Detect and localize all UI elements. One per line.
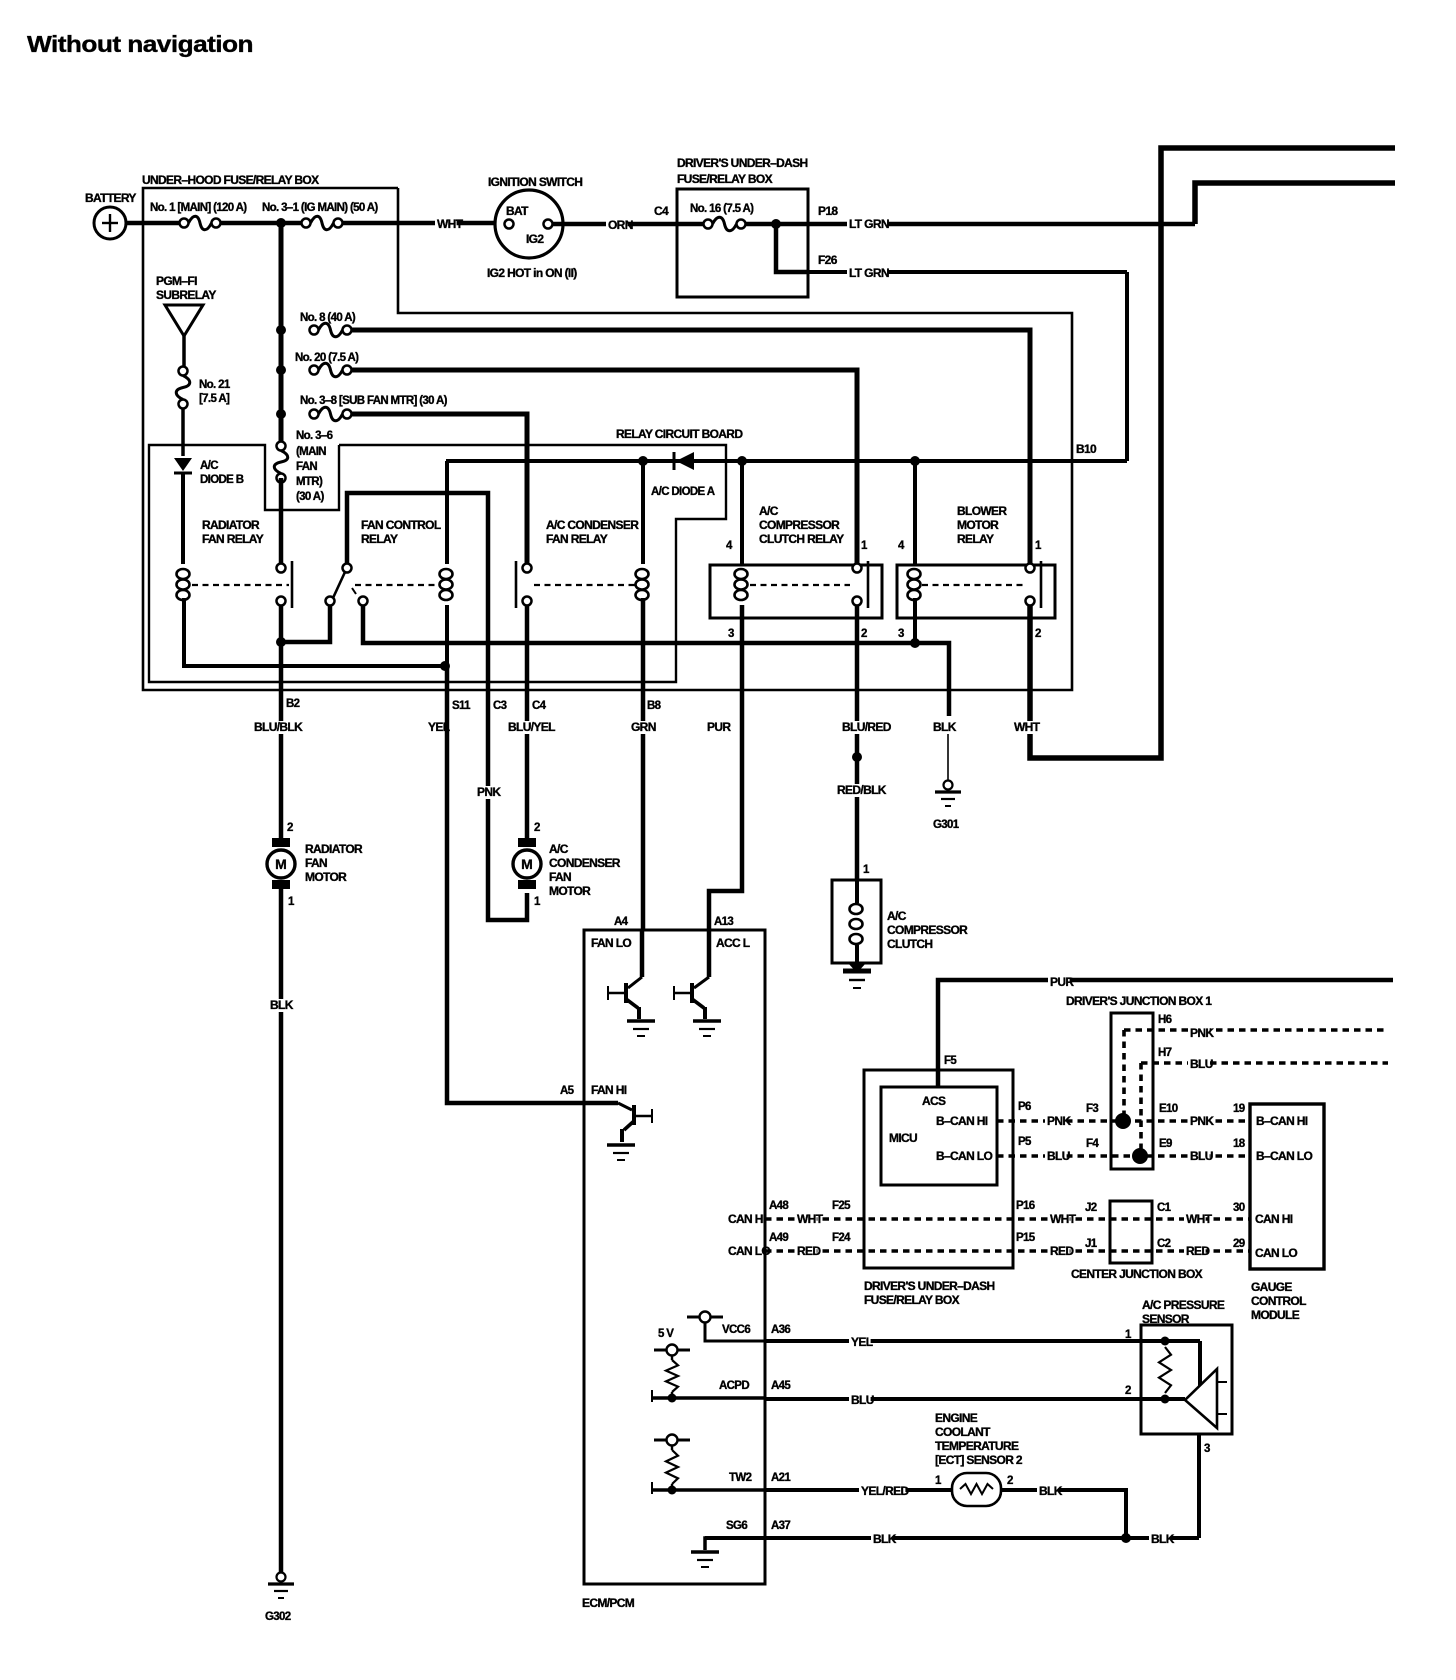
svg-text:BLK: BLK: [873, 1532, 897, 1546]
svg-text:GRN: GRN: [631, 720, 656, 734]
svg-text:G302: G302: [265, 1611, 291, 1623]
terminal WHT label: [1012, 721, 1034, 734]
fan control relay armature: [333, 572, 345, 598]
svg-text:BLU/BLK: BLU/BLK: [254, 720, 303, 734]
wire compressor relay pin2 to clutch: [855, 605, 860, 880]
svg-text:RELAY: RELAY: [957, 532, 994, 546]
svg-text:B–CAN LO: B–CAN LO: [1256, 1149, 1312, 1163]
svg-text:RELAY: RELAY: [361, 532, 398, 546]
svg-text:MODULE: MODULE: [1251, 1308, 1300, 1322]
svg-text:DRIVER'S UNDER–DASH: DRIVER'S UNDER–DASH: [864, 1279, 995, 1293]
svg-text:FUSE/RELAY BOX: FUSE/RELAY BOX: [864, 1293, 960, 1307]
junction pressure sensor pin1: [1161, 1337, 1170, 1346]
svg-text:C1: C1: [1157, 1202, 1172, 1214]
svg-text:C2: C2: [1157, 1238, 1171, 1250]
svg-text:E9: E9: [1159, 1138, 1172, 1150]
svg-text:A45: A45: [771, 1380, 791, 1392]
svg-text:RADIATOR: RADIATOR: [305, 842, 363, 856]
svg-text:A5: A5: [560, 1085, 575, 1097]
svg-text:J1: J1: [1085, 1238, 1098, 1250]
svg-text:A36: A36: [771, 1324, 790, 1336]
junction B2 / fan control relay throw: [276, 637, 286, 647]
svg-text:PUR: PUR: [707, 720, 731, 734]
junction pressure sensor pin2: [1161, 1395, 1170, 1404]
svg-text:DRIVER'S UNDER–DASH: DRIVER'S UNDER–DASH: [677, 156, 808, 170]
svg-text:MOTOR: MOTOR: [549, 884, 591, 898]
svg-text:BLU: BLU: [851, 1393, 874, 1407]
svg-text:A49: A49: [769, 1232, 788, 1244]
svg-text:F4: F4: [1086, 1138, 1099, 1150]
svg-text:ACPD: ACPD: [719, 1380, 749, 1392]
svg-text:A/C PRESSURE: A/C PRESSURE: [1142, 1298, 1225, 1312]
svg-text:A/C: A/C: [549, 842, 569, 856]
svg-text:FAN: FAN: [549, 870, 571, 884]
wire F26 branch down: [776, 224, 808, 272]
junction No.3-8 branch: [276, 409, 286, 419]
svg-text:WHT: WHT: [437, 217, 464, 231]
wire WHT fuse No.3-1 to ignition switch: [343, 221, 505, 226]
wire fuse No.1 to junction: [221, 221, 302, 226]
svg-text:2: 2: [534, 822, 540, 834]
svg-text:F26: F26: [818, 253, 838, 267]
svg-text:YEL: YEL: [851, 1335, 873, 1349]
svg-text:SG6: SG6: [726, 1520, 747, 1532]
wire B-CAN LO BLU dashed P5-F4-E9-18: [997, 1154, 1250, 1158]
svg-text:CLUTCH RELAY: CLUTCH RELAY: [759, 532, 844, 546]
svg-text:30: 30: [1233, 1202, 1245, 1214]
svg-text:ENGINE: ENGINE: [935, 1411, 978, 1425]
svg-text:FAN HI: FAN HI: [591, 1083, 627, 1097]
wire relay coil bus from F26: [446, 459, 1127, 463]
wire B-CAN HI PNK dashed P6-F3-E10-19: [997, 1119, 1250, 1123]
svg-text:No. 16 (7.5 A): No. 16 (7.5 A): [690, 203, 754, 215]
svg-text:DRIVER'S JUNCTION BOX 1: DRIVER'S JUNCTION BOX 1: [1066, 994, 1212, 1008]
svg-text:ACC L: ACC L: [716, 936, 750, 950]
wire blower relay pin3 to ground bus: [913, 598, 917, 643]
svg-text:FAN: FAN: [305, 856, 327, 870]
svg-text:J2: J2: [1085, 1202, 1097, 1214]
svg-text:G301: G301: [933, 819, 960, 831]
svg-text:B2: B2: [286, 698, 300, 710]
svg-text:WHT: WHT: [1050, 1212, 1077, 1226]
wire condenser coil high side: [641, 461, 645, 564]
svg-text:P18: P18: [818, 204, 838, 218]
ECM/PCM box: [584, 930, 765, 1584]
terminal B2 wire BLU/BLK to radiator fan motor: [279, 642, 284, 839]
svg-text:1: 1: [863, 864, 870, 876]
wire CAN HI WHT dashed A48-F25-P16-J2-C1-30: [765, 1217, 1250, 1221]
wire PUR to ECM A13: [705, 721, 727, 734]
transistor ACC L: [707, 930, 712, 977]
junction No.20 branch: [276, 365, 286, 375]
wire BLK ECT pin2 down to BLK bus: [1001, 1490, 1126, 1538]
svg-text:3: 3: [898, 628, 904, 640]
svg-text:A/C DIODE A: A/C DIODE A: [651, 486, 715, 498]
svg-text:A21: A21: [771, 1472, 791, 1484]
wire F26 down to relay coil bus: [1125, 272, 1129, 461]
wire H7 BLU dashed: [1141, 1061, 1388, 1065]
svg-text:VCC6: VCC6: [722, 1324, 750, 1336]
svg-text:IG2: IG2: [526, 232, 544, 246]
svg-text:IG2 HOT in ON (II): IG2 HOT in ON (II): [487, 266, 577, 280]
ground FAN LO transistor: [627, 1019, 655, 1023]
svg-text:CAN HI: CAN HI: [728, 1212, 766, 1226]
svg-text:A48: A48: [769, 1200, 789, 1212]
svg-text:No. 3–1 (IG MAIN) (50 A): No. 3–1 (IG MAIN) (50 A): [262, 202, 378, 214]
wire subrelay to fuse No.21: [182, 336, 186, 367]
wire main bus vertical: [279, 223, 284, 446]
5V pullup TW2: [654, 1439, 690, 1442]
terminal C4 wire BLU/YEL to condenser fan motor: [525, 690, 530, 839]
svg-text:COMPRESSOR: COMPRESSOR: [759, 518, 840, 532]
svg-text:C4: C4: [654, 204, 669, 218]
transistor FAN LO: [640, 930, 645, 977]
svg-text:FAN RELAY: FAN RELAY: [546, 532, 608, 546]
svg-text:A/C: A/C: [759, 504, 779, 518]
wire No.20 to compressor clutch relay pin1: [352, 370, 858, 563]
svg-text:CENTER JUNCTION BOX: CENTER JUNCTION BOX: [1071, 1267, 1203, 1281]
wire LT GRN F26 to right: [808, 270, 1127, 274]
svg-text:No. 3–6: No. 3–6: [296, 430, 333, 442]
svg-text:B–CAN HI: B–CAN HI: [1256, 1114, 1308, 1128]
svg-text:BATTERY: BATTERY: [85, 191, 136, 205]
svg-text:3: 3: [728, 628, 734, 640]
svg-text:CAN HI: CAN HI: [1255, 1212, 1293, 1226]
svg-text:18: 18: [1233, 1138, 1246, 1150]
junction No.8 branch: [276, 325, 286, 335]
svg-text:LT GRN: LT GRN: [849, 266, 889, 280]
under-hood fuse/relay box outline: [143, 188, 1072, 690]
svg-text:TW2: TW2: [729, 1472, 752, 1484]
wire BLU/RED / RED/BLK to compressor clutch: [840, 721, 886, 734]
driver's under-dash fuse/relay box (top): [677, 189, 808, 297]
svg-text:5 V: 5 V: [658, 1328, 674, 1340]
svg-text:MOTOR: MOTOR: [305, 870, 347, 884]
pressure sensor amplifier: [1185, 1369, 1217, 1428]
svg-text:BLU/YEL: BLU/YEL: [508, 720, 555, 734]
svg-text:BAT: BAT: [506, 204, 529, 218]
svg-text:2: 2: [287, 822, 293, 834]
svg-text:RED: RED: [797, 1244, 821, 1258]
wire blower relay pin4: [913, 461, 917, 564]
wire compressor relay pin4: [740, 461, 744, 564]
svg-text:PNK: PNK: [1047, 1114, 1071, 1128]
svg-text:B8: B8: [647, 700, 662, 712]
svg-text:BLK: BLK: [1039, 1484, 1063, 1498]
svg-text:CAN LO: CAN LO: [728, 1244, 770, 1258]
svg-text:DIODE B: DIODE B: [200, 474, 244, 486]
svg-text:BLOWER: BLOWER: [957, 504, 1007, 518]
terminal BLK wire to G301: [947, 700, 952, 716]
svg-text:C4: C4: [532, 700, 547, 712]
svg-text:PUR: PUR: [1050, 975, 1074, 989]
svg-text:TEMPERATURE: TEMPERATURE: [935, 1439, 1019, 1453]
svg-text:LT GRN: LT GRN: [849, 217, 889, 231]
wire radiator relay coil low side: [184, 598, 442, 666]
5V reference VCC6: [687, 1316, 723, 1319]
svg-text:(30 A): (30 A): [296, 491, 324, 503]
svg-text:F25: F25: [832, 1200, 851, 1212]
svg-text:No. 1 [MAIN] (120 A): No. 1 [MAIN] (120 A): [150, 202, 247, 214]
svg-text:2: 2: [861, 628, 867, 640]
svg-text:RADIATOR: RADIATOR: [202, 518, 260, 532]
svg-text:PNK: PNK: [1190, 1026, 1214, 1040]
svg-text:BLK: BLK: [1151, 1532, 1175, 1546]
svg-text:MOTOR: MOTOR: [957, 518, 999, 532]
svg-text:F24: F24: [832, 1232, 851, 1244]
wire diode B to radiator fan relay coil: [181, 473, 185, 564]
svg-text:P5: P5: [1018, 1136, 1032, 1148]
wire H6 PNK dashed: [1124, 1028, 1388, 1032]
wire to fan control relay left throw: [281, 605, 330, 642]
junction splice F4/E9: [1132, 1148, 1148, 1164]
pressure sensor internal resistor: [1159, 1347, 1171, 1393]
svg-text:F3: F3: [1086, 1103, 1098, 1115]
wire fuse No.16 to P18: [746, 222, 809, 227]
svg-text:(MAIN: (MAIN: [296, 446, 326, 458]
svg-text:COMPRESSOR: COMPRESSOR: [887, 923, 968, 937]
center junction box: [1110, 1201, 1152, 1263]
svg-text:No. 21: No. 21: [199, 379, 231, 391]
svg-text:4: 4: [726, 540, 733, 552]
wire condenser coil low side to B8: [641, 598, 646, 690]
svg-text:RED: RED: [1050, 1244, 1074, 1258]
wire No.8 to blower relay pin1: [352, 330, 1031, 563]
svg-text:P16: P16: [1016, 1200, 1035, 1212]
wire WHT blower pin2 to page edge: [1030, 148, 1395, 758]
junction S11: [440, 661, 450, 671]
wire ORN ignition to C4 under-dash box: [553, 222, 704, 227]
svg-text:P15: P15: [1016, 1232, 1036, 1244]
svg-text:S11: S11: [452, 700, 471, 712]
svg-text:CLUTCH: CLUTCH: [887, 937, 932, 951]
junction main bus: [276, 218, 286, 228]
junction A/C condenser fan relay coil: [638, 456, 648, 466]
svg-text:2: 2: [1007, 1475, 1013, 1487]
svg-text:BLK: BLK: [933, 720, 957, 734]
svg-text:MICU: MICU: [889, 1131, 917, 1145]
svg-text:F5: F5: [944, 1055, 957, 1067]
svg-text:1: 1: [534, 896, 541, 908]
svg-text:2: 2: [1125, 1385, 1131, 1397]
wire compressor relay pin3 to PUR: [740, 605, 745, 690]
svg-text:P6: P6: [1018, 1101, 1031, 1113]
ground compressor clutch: [848, 963, 866, 973]
ground FAN HI transistor: [607, 1143, 635, 1147]
svg-text:19: 19: [1233, 1103, 1245, 1115]
svg-text:M: M: [275, 856, 287, 872]
terminal B8 wire GRN to ECM A4: [641, 690, 646, 930]
A/C diode A: [673, 452, 676, 470]
junction ECT BLK: [1121, 1533, 1131, 1543]
svg-text:3: 3: [1204, 1443, 1210, 1455]
pressure sensor supply drop: [1198, 1341, 1202, 1387]
svg-text:FUSE/RELAY BOX: FUSE/RELAY BOX: [677, 172, 773, 186]
svg-text:1: 1: [1035, 540, 1042, 552]
svg-text:RED: RED: [1186, 1244, 1210, 1258]
junction F26 branch: [771, 219, 781, 229]
svg-text:PNK: PNK: [477, 785, 501, 799]
svg-text:No. 3–8 [SUB FAN MTR] (30 A): No. 3–8 [SUB FAN MTR] (30 A): [300, 395, 448, 407]
wire fuse No.3-6 to radiator fan relay contact: [279, 478, 284, 563]
svg-text:YEL/RED: YEL/RED: [861, 1484, 909, 1498]
junction A/C compressor clutch relay coil pin4: [737, 456, 747, 466]
svg-text:A/C: A/C: [887, 909, 907, 923]
ground G301: [944, 781, 953, 790]
svg-text:GAUGE: GAUGE: [1251, 1280, 1292, 1294]
svg-text:[ECT] SENSOR 2: [ECT] SENSOR 2: [935, 1453, 1023, 1467]
transistor FAN HI: [584, 1101, 618, 1106]
svg-text:A/C CONDENSER: A/C CONDENSER: [546, 518, 639, 532]
svg-text:A4: A4: [614, 916, 629, 928]
svg-text:CAN LO: CAN LO: [1255, 1246, 1297, 1260]
svg-text:BLU: BLU: [1190, 1057, 1213, 1071]
svg-text:YEL: YEL: [428, 720, 450, 734]
svg-text:B–CAN LO: B–CAN LO: [936, 1149, 992, 1163]
svg-text:FAN: FAN: [296, 461, 317, 473]
svg-text:SUBRELAY: SUBRELAY: [156, 288, 216, 302]
A/C diode B: [174, 458, 192, 471]
svg-text:WHT: WHT: [797, 1212, 824, 1226]
svg-text:E10: E10: [1159, 1103, 1178, 1115]
wire CAN LO RED dashed A49-F24-P15-J1-C2-29: [765, 1249, 1250, 1253]
ground G302: [277, 1573, 286, 1582]
wire PUR to F5 under-dash box: [938, 980, 1393, 1087]
svg-text:IGNITION SWITCH: IGNITION SWITCH: [488, 175, 582, 189]
wire fan control right throw to ground bus: [363, 605, 949, 700]
svg-text:ACS: ACS: [922, 1094, 946, 1108]
svg-text:UNDER–HOOD FUSE/RELAY BOX: UNDER–HOOD FUSE/RELAY BOX: [142, 173, 319, 187]
svg-text:WHT: WHT: [1186, 1212, 1213, 1226]
svg-text:FAN RELAY: FAN RELAY: [202, 532, 264, 546]
svg-text:BLU: BLU: [1190, 1149, 1213, 1163]
relay circuit board outline: [149, 445, 726, 682]
svg-text:CONDENSER: CONDENSER: [549, 856, 621, 870]
wire fan control coil high side to coil bus: [445, 461, 449, 564]
svg-text:A13: A13: [714, 916, 733, 928]
svg-text:ECM/PCM: ECM/PCM: [582, 1596, 635, 1610]
svg-text:FAN CONTROL: FAN CONTROL: [361, 518, 441, 532]
driver's under-dash fuse/relay box (bottom): [864, 1070, 1013, 1268]
terminal S11 wire YEL to ECM A5: [447, 666, 584, 1103]
svg-text:No. 8 (40 A): No. 8 (40 A): [300, 312, 356, 324]
svg-text:B–CAN HI: B–CAN HI: [936, 1114, 988, 1128]
wire condenser contact to C4: [525, 605, 530, 690]
svg-text:PNK: PNK: [1190, 1114, 1214, 1128]
svg-text:1: 1: [288, 896, 295, 908]
junction blower relay coil low side: [910, 638, 920, 648]
svg-text:[7.5 A]: [7.5 A]: [199, 393, 230, 405]
svg-text:1: 1: [861, 540, 868, 552]
wire No.3-8 to A/C condenser fan relay contact: [352, 414, 528, 563]
svg-text:RED/BLK: RED/BLK: [837, 783, 887, 797]
junction blower motor relay coil pin4: [910, 456, 920, 466]
ground ACC L transistor: [693, 1019, 721, 1023]
svg-text:Without navigation: Without navigation: [27, 31, 253, 57]
wire radiator relay contact to B2 junction: [279, 605, 284, 642]
svg-text:H7: H7: [1158, 1047, 1172, 1059]
svg-text:A/C: A/C: [200, 460, 218, 472]
svg-text:ORN: ORN: [608, 218, 633, 232]
wire LT GRN P18 to right: [808, 222, 1195, 227]
svg-text:CONTROL: CONTROL: [1251, 1294, 1306, 1308]
gauge control module: [1250, 1104, 1324, 1269]
svg-text:FAN LO: FAN LO: [591, 936, 631, 950]
svg-text:WHT: WHT: [1014, 720, 1041, 734]
MICU / ACS module: [881, 1087, 997, 1185]
svg-text:BLU/RED: BLU/RED: [842, 720, 892, 734]
wire P18 riser to page edge: [1195, 183, 1395, 224]
svg-text:BLU: BLU: [1047, 1149, 1070, 1163]
wire battery to fuse No.1: [126, 221, 180, 226]
svg-text:PGM–FI: PGM–FI: [156, 274, 197, 288]
wire fan control common to C3: [347, 493, 527, 920]
svg-text:RELAY CIRCUIT BOARD: RELAY CIRCUIT BOARD: [616, 427, 743, 441]
svg-text:4: 4: [898, 540, 905, 552]
svg-text:COOLANT: COOLANT: [935, 1425, 991, 1439]
svg-text:M: M: [521, 856, 533, 872]
svg-text:2: 2: [1035, 628, 1041, 640]
wire BLK radiator fan motor to G302: [279, 889, 284, 1572]
svg-text:1: 1: [935, 1475, 942, 1487]
wire fuse No.21 to diode B: [181, 409, 185, 457]
svg-text:C3: C3: [493, 700, 507, 712]
svg-text:29: 29: [1233, 1238, 1245, 1250]
svg-text:MTR): MTR): [296, 476, 323, 488]
junction splice F3/E10: [1115, 1113, 1131, 1129]
svg-text:H6: H6: [1158, 1014, 1172, 1026]
svg-text:BLK: BLK: [270, 998, 294, 1012]
svg-text:A37: A37: [771, 1520, 790, 1532]
svg-text:B10: B10: [1076, 442, 1097, 456]
wire coil low bus to S11: [445, 605, 449, 666]
